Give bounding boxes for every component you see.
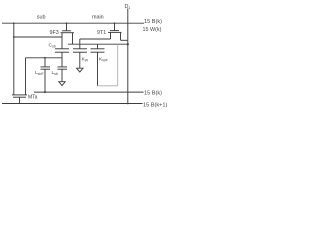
capacitor K_WF top lead bbox=[97, 44, 99, 49]
wire faint horizontal K_WF bottom bbox=[98, 85, 118, 87]
capacitor L_sb plates bbox=[58, 66, 68, 68]
svg-text:D1: D1 bbox=[125, 4, 131, 10]
wire 9T1 drain to D1 line bbox=[121, 39, 129, 41]
junction dot left vertical at rail bbox=[13, 22, 15, 24]
svg-text:sub: sub bbox=[37, 15, 46, 21]
junction dot node A / D1 bbox=[127, 43, 129, 45]
junction dot branch left bbox=[13, 36, 15, 38]
junction dot storage node bbox=[44, 57, 46, 59]
wire storage node horizontal bbox=[26, 57, 63, 59]
transistor MTa channel bbox=[12, 94, 27, 96]
transistor 9T1 left lead bbox=[110, 32, 112, 39]
transistor 9T1 gate lead bbox=[114, 23, 116, 30]
wire left vertical (MTa left lead up to rail) bbox=[13, 23, 15, 95]
common electrode triangle of L_sb bbox=[59, 82, 65, 86]
capacitor K_WF plates bbox=[91, 48, 105, 50]
capacitor L_sbF bottom lead bbox=[44, 69, 46, 92]
capacitor C_sb bottom lead bbox=[61, 52, 63, 67]
transistor 9T1 right lead bbox=[120, 32, 122, 40]
svg-text:15 B(k): 15 B(k) bbox=[144, 90, 162, 96]
transistor 9F3 right lead bbox=[72, 33, 74, 45]
svg-text:15 B(k+1): 15 B(k+1) bbox=[143, 103, 168, 109]
wire faint vertical right of K_WF bbox=[117, 44, 119, 86]
transistor 9T1 channel bbox=[108, 31, 122, 33]
capacitor K_WF bottom lead bbox=[97, 52, 99, 86]
wire branch to T3 source bbox=[14, 36, 62, 38]
svg-text:main: main bbox=[92, 15, 104, 21]
transistor 9F3 channel bbox=[61, 32, 75, 34]
transistor 9T1 gate bar bbox=[110, 30, 119, 32]
transistor 9F3 left lead bbox=[61, 33, 63, 49]
wire top rail sub/main bbox=[2, 22, 144, 24]
transistor 9F3 gate bar bbox=[62, 30, 71, 32]
capacitor L_sbF plates bbox=[41, 66, 51, 68]
transistor MTa gate lead bbox=[19, 97, 21, 103]
wire bus B(k) bbox=[34, 91, 144, 93]
capacitor L_sbF top lead bbox=[44, 58, 46, 67]
wire bus B(k+1) bbox=[2, 103, 143, 105]
transistor 9F3 gate lead bbox=[66, 23, 68, 31]
capacitor K_W bottom lead bbox=[79, 52, 81, 68]
junction dot 9F3 gate at rail bbox=[66, 22, 68, 24]
wire D1 vertical bbox=[127, 9, 129, 105]
svg-text:9F3: 9F3 bbox=[50, 30, 59, 36]
svg-text:MTa: MTa bbox=[28, 95, 38, 101]
transistor MTa gate bar bbox=[13, 96, 26, 98]
capacitor C_sb plates bbox=[55, 48, 69, 50]
transistor MTa right lead bbox=[25, 58, 27, 95]
svg-text:9T1: 9T1 bbox=[97, 30, 106, 36]
capacitor K_W plates bbox=[73, 48, 87, 50]
junction dot L_sbF / B(k) bbox=[44, 91, 46, 93]
capacitor L_sb bottom lead bbox=[61, 69, 63, 82]
wire 9T1 gate net horizontal bbox=[80, 38, 111, 40]
junction dot 9T1 gate at rail bbox=[114, 22, 116, 24]
svg-text:15 W(k): 15 W(k) bbox=[143, 27, 162, 33]
wire node A horizontal bbox=[68, 43, 128, 45]
svg-text:15 B(k): 15 B(k) bbox=[144, 19, 162, 25]
wire capacitor K_W top lead bbox=[79, 39, 81, 49]
common electrode triangle of K_W bbox=[77, 68, 83, 72]
